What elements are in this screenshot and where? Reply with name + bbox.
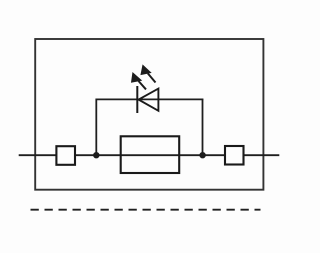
terminal block body outline [35,39,263,190]
left clamp terminal contact [56,146,75,165]
LED D1 triangle (anode, pointing left) [139,89,159,111]
right clamp terminal contact [225,146,244,165]
branch wire: right vertical segment [202,99,204,156]
branch wire: top horizontal segment [96,98,204,100]
fuse holder box F1 [121,136,180,173]
DIN rail marker (dashed line) [31,209,261,211]
LED D1 cathode bar [136,86,138,113]
node A (left junction dot) [93,152,99,158]
LED emission arrow (upper-right) [141,66,155,83]
branch wire: left vertical segment [95,99,97,156]
main conductor wire [19,154,280,156]
node B (right junction dot) [199,152,205,158]
LED emission arrow (lower-left) [132,73,146,89]
